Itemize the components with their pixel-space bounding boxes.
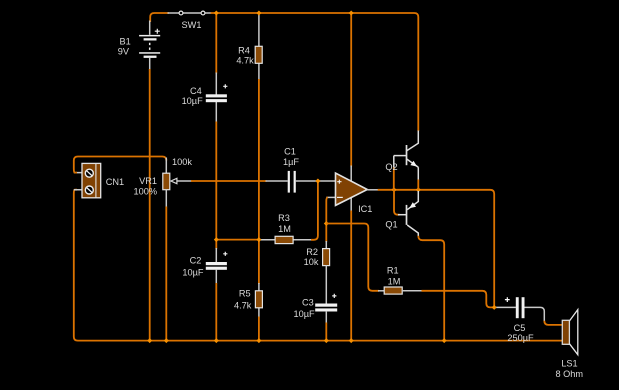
svg-text:10k: 10k <box>304 257 319 267</box>
capacitor C4 <box>182 84 228 106</box>
speaker LS1 <box>556 310 584 380</box>
node rail battery <box>147 338 152 343</box>
wire C1 to op-amp noninverting input <box>296 180 336 182</box>
svg-text:C2: C2 <box>190 256 202 266</box>
node top rail C4 <box>214 11 219 16</box>
node top rail IC1 <box>349 11 354 16</box>
capacitor C3 <box>293 294 337 341</box>
node top rail R4 <box>256 11 261 16</box>
svg-text:100%: 100% <box>134 186 158 196</box>
resistor R2 <box>304 241 330 304</box>
node rail C2 <box>214 338 219 343</box>
svg-text:C1: C1 <box>284 147 296 157</box>
node output left <box>392 187 397 192</box>
svg-text:250µF: 250µF <box>507 333 534 343</box>
svg-text:IC1: IC1 <box>358 204 372 214</box>
node inverting input <box>324 221 329 226</box>
svg-text:1µF: 1µF <box>283 157 299 167</box>
node rail IC1 <box>349 338 354 343</box>
node rail VR1 <box>164 338 169 343</box>
svg-text:R5: R5 <box>239 289 251 299</box>
svg-text:1M: 1M <box>278 224 291 234</box>
wire inverting input down <box>326 197 328 242</box>
svg-text:C3: C3 <box>302 297 314 307</box>
potentiometer VR1 <box>134 157 193 208</box>
svg-text:Q1: Q1 <box>385 220 397 230</box>
node rail C3 <box>324 338 329 343</box>
wire R1 to output node <box>422 291 495 308</box>
resistor R1 <box>378 266 423 295</box>
svg-text:C5: C5 <box>514 323 526 333</box>
node rail R5 <box>256 338 261 343</box>
battery B1 <box>118 21 160 71</box>
wire bottom rail <box>74 190 563 341</box>
wire C2 branch vertical <box>215 240 217 341</box>
svg-text:R3: R3 <box>278 213 290 223</box>
capacitor C1 <box>283 147 299 193</box>
svg-text:4.7k: 4.7k <box>234 300 252 310</box>
svg-text:R2: R2 <box>306 247 318 257</box>
svg-text:R4: R4 <box>238 45 250 55</box>
wire feedback to R1 <box>326 224 379 291</box>
capacitor C5 <box>494 297 562 343</box>
svg-text:B1: B1 <box>119 37 130 47</box>
svg-text:4.7k: 4.7k <box>236 56 254 66</box>
wire C4 branch vertical <box>215 13 217 240</box>
svg-text:10µF: 10µF <box>182 96 204 106</box>
svg-text:CN1: CN1 <box>106 177 124 187</box>
wire CN1 top to VR1 top <box>74 157 167 173</box>
connector CN1 <box>74 163 124 197</box>
resistor R5 <box>234 289 262 311</box>
svg-text:10µF: 10µF <box>182 268 204 278</box>
node bias row R4 <box>256 237 261 242</box>
svg-text:R1: R1 <box>387 266 399 276</box>
switch SW1 <box>179 11 205 30</box>
node C5 output <box>492 305 497 310</box>
svg-text:8 Ohm: 8 Ohm <box>556 369 584 379</box>
node output right <box>416 187 421 192</box>
wire VR1 wiper to C1 <box>191 180 288 182</box>
wire battery negative to ground rail <box>149 69 151 341</box>
transistor Q1 <box>385 190 444 341</box>
wire R4 R5 branch <box>258 14 260 341</box>
node rail Q1 <box>442 338 447 343</box>
svg-text:C4: C4 <box>190 86 202 96</box>
svg-text:9V: 9V <box>118 47 130 57</box>
svg-text:10µF: 10µF <box>293 309 315 319</box>
svg-text:LS1: LS1 <box>561 359 577 369</box>
node noninverting input <box>315 179 320 184</box>
svg-text:100k: 100k <box>172 157 192 167</box>
wire VR1 bottom to rail <box>165 207 167 341</box>
op-amp U1 IC1 <box>326 13 378 341</box>
transistor Q2 <box>385 131 418 190</box>
resistor R4 <box>236 45 262 65</box>
svg-text:1M: 1M <box>388 277 401 287</box>
capacitor C2 <box>182 252 227 278</box>
svg-text:VR1: VR1 <box>139 176 157 186</box>
resistor R3 <box>275 213 293 244</box>
wire bias row y=239.6 <box>216 181 318 240</box>
svg-text:SW1: SW1 <box>182 20 202 30</box>
wire output bus <box>378 190 495 308</box>
node bias row C4 <box>214 237 219 242</box>
wire top rail <box>150 13 418 131</box>
svg-text:Q2: Q2 <box>385 162 397 172</box>
